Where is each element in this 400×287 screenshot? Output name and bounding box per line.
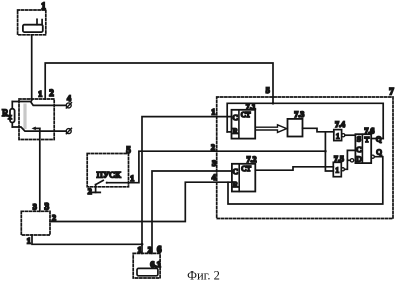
svg-text:4: 4 <box>67 94 71 103</box>
svg-text:D: D <box>356 154 362 163</box>
inversion bubble D input 7.6 <box>350 159 353 162</box>
counter 7.1 <box>232 110 256 139</box>
svg-text:1: 1 <box>335 166 339 175</box>
wire: 7.2 output to gate 7.5 <box>255 167 333 170</box>
svg-text:7.4: 7.4 <box>335 120 345 129</box>
svg-text:1: 1 <box>336 131 340 140</box>
svg-text:7.5: 7.5 <box>334 155 344 164</box>
sensor block 1 (dashed box) <box>18 10 46 35</box>
terminal 4 <box>66 103 71 108</box>
svg-text:R: R <box>233 127 238 136</box>
svg-text:CT: CT <box>241 164 251 173</box>
svg-text:2: 2 <box>49 88 54 98</box>
svg-text:1: 1 <box>38 89 42 98</box>
svg-text:x: x <box>8 113 12 121</box>
switch SB (lever and contact) <box>91 180 108 192</box>
svg-text:1: 1 <box>27 237 31 246</box>
indicator block 6 (dashed box) <box>133 253 160 278</box>
node A (junction) <box>141 243 144 246</box>
svg-text:1: 1 <box>211 108 215 117</box>
wire: net2 vertical branch to 7.5 <box>325 132 333 171</box>
wire: block 3 pin 1 to node A <box>32 235 142 244</box>
resistor Rx (left element) <box>11 102 13 128</box>
wire: top bus (pin5 / Q net) <box>227 103 383 138</box>
trigger 7.6 <box>355 134 371 163</box>
gate 7.4 <box>334 130 342 141</box>
wire: stub to D bubble <box>347 159 350 161</box>
start button block 5 (dashed box) <box>87 154 128 187</box>
inversion bubble 7.5 output <box>341 168 344 171</box>
svg-text:C: C <box>233 113 238 122</box>
wire: block 1 output down to transducer 2 wiper <box>30 35 34 102</box>
svg-text:CT: CT <box>241 110 251 119</box>
wire: transducer 2 pin 2 up and right to unit 7 pin 5 <box>45 63 273 103</box>
svg-text:3: 3 <box>44 203 49 213</box>
svg-text:7.3: 7.3 <box>294 110 304 119</box>
svg-text:Фиг. 2: Фиг. 2 <box>187 269 220 283</box>
node net2 (junction) <box>324 150 327 153</box>
svg-text:S: S <box>357 135 361 144</box>
svg-text:Q: Q <box>376 148 382 157</box>
svg-text:2: 2 <box>148 245 152 254</box>
wire: Q output to top bus <box>371 138 383 140</box>
potentiometer track shading <box>23 104 26 130</box>
indicator lamp 6.1 <box>137 268 158 275</box>
transducer block 2 (dashed box) <box>19 99 54 140</box>
svg-text:1: 1 <box>138 245 142 254</box>
potentiometer body (lower contact rail) <box>12 127 66 131</box>
gate 7.5 <box>333 162 341 176</box>
svg-text:ПУСК: ПУСК <box>97 169 121 179</box>
svg-text:7: 7 <box>389 88 394 98</box>
wire: 7.3 output to gate 7.4 <box>303 128 334 132</box>
svg-text:2: 2 <box>211 143 215 152</box>
wire: button to unit 7 pin 2 <box>107 151 326 183</box>
bus arrow 7.1 to 7.3 <box>255 125 286 133</box>
wire: pin 5 junction dot <box>272 102 275 105</box>
wiper arrow and wire down to block 3 <box>32 127 40 212</box>
wire: unit 7 pin 3 bus down to indicator 6 pin 2 <box>152 171 232 253</box>
terminal 6 <box>66 128 71 133</box>
wire: unit 7 pin 1 bus down to indicator 6 pin 1 <box>142 117 232 254</box>
inversion bubble Q-bar output <box>371 155 374 158</box>
svg-text:2: 2 <box>88 187 92 196</box>
svg-text:4: 4 <box>212 173 216 182</box>
block 3 (dashed box) <box>21 211 50 235</box>
svg-text:1: 1 <box>41 1 46 11</box>
wire: block 3 pin 2 to unit 7 pin 4 <box>50 182 232 221</box>
wire: 7.5 output up to C and D of trigger 7.6 <box>345 150 356 169</box>
svg-text:3: 3 <box>212 159 216 168</box>
inversion bubble 7.4 output <box>342 134 345 137</box>
svg-text:C: C <box>356 145 361 154</box>
svg-text:T: T <box>365 135 370 144</box>
potentiometer body (upper contact rail) <box>12 102 66 106</box>
svg-text:5: 5 <box>266 86 270 95</box>
svg-text:6: 6 <box>157 245 162 255</box>
svg-text:R: R <box>233 180 238 189</box>
wire: R input of counter 7.1 <box>227 131 231 133</box>
counter 7.2 <box>232 164 255 192</box>
unit 7 (dashed box) <box>217 97 393 219</box>
svg-text:7.2: 7.2 <box>247 155 257 164</box>
svg-text:5: 5 <box>126 145 131 155</box>
wire: Q-bar output down and along bottom to reset bus <box>228 157 383 204</box>
converter 7.3 <box>288 119 303 137</box>
wire: 7.4 output to S of trigger 7.6 <box>345 134 356 136</box>
svg-text:6.1: 6.1 <box>150 259 161 269</box>
svg-text:C: C <box>233 167 238 176</box>
svg-text:3: 3 <box>33 203 37 212</box>
